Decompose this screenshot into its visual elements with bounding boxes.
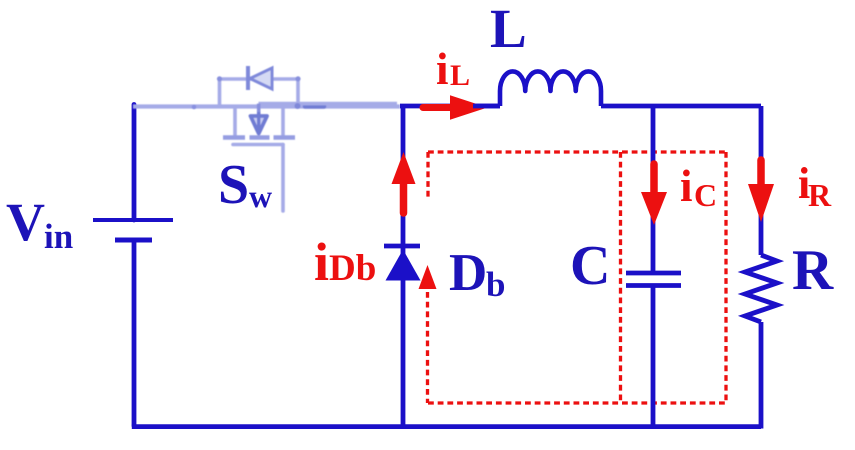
wire: capacitor branch upper xyxy=(651,106,656,273)
svg-text:L: L xyxy=(490,0,527,59)
svg-text:C: C xyxy=(694,177,717,213)
current arrow iDb xyxy=(400,184,408,213)
svg-text:D: D xyxy=(449,244,487,302)
svg-text:i: i xyxy=(314,232,329,292)
current arrow iR xyxy=(757,160,765,185)
svg-text:i: i xyxy=(680,161,693,211)
faded switch: channel bars xyxy=(223,135,245,140)
inductor L xyxy=(500,71,601,106)
svg-text:in: in xyxy=(44,217,73,256)
faded switch: gate lead xyxy=(281,145,285,212)
svg-text:S: S xyxy=(218,154,249,216)
wire: top wire from diode node to inductor xyxy=(400,104,500,109)
resistor R zigzag xyxy=(745,255,777,322)
dashed loop: arrowhead xyxy=(419,265,437,289)
wire: capacitor branch lower xyxy=(651,286,656,429)
battery Vin short plate xyxy=(115,238,152,243)
svg-text:V: V xyxy=(6,192,45,252)
faded switch: source lead second line xyxy=(259,102,398,106)
dashed loop: bottom edge xyxy=(428,401,726,404)
faded switch: bottom line xyxy=(233,143,283,147)
battery Vin long plate xyxy=(93,218,173,222)
diode Db triangle xyxy=(386,250,421,281)
faded switch: junction dot xyxy=(192,105,197,110)
dashed loop: top edge xyxy=(428,150,726,153)
faded switch: body diode loop xyxy=(220,79,299,108)
wire: top wire from inductor to right corner xyxy=(601,104,761,109)
wire: left vertical from top wire to battery xyxy=(132,105,137,221)
faded switch: body diode cathode bar xyxy=(246,66,250,90)
current arrow iC xyxy=(650,164,658,193)
wire: left vertical from battery to bottom rail xyxy=(132,240,137,427)
wire: diode branch vertical xyxy=(401,104,406,428)
svg-text:R: R xyxy=(792,239,834,302)
dashed loop: left edge lower xyxy=(426,292,429,403)
faded switch Sw: horizontal wire xyxy=(133,104,400,108)
capacitor C top plate xyxy=(626,271,681,276)
capacitor C bottom plate xyxy=(626,283,681,288)
faded switch: loop junction blob xyxy=(295,103,301,109)
svg-text:Db: Db xyxy=(329,248,376,289)
diode Db cathode bar xyxy=(384,244,420,249)
faded switch: loop corner dots xyxy=(217,76,222,81)
svg-text:L: L xyxy=(450,59,470,92)
wire: resistor branch upper xyxy=(759,106,764,255)
wire: segment over arrow tip xyxy=(473,104,500,109)
svg-text:R: R xyxy=(808,177,832,213)
svg-text:i: i xyxy=(436,44,449,94)
dashed loop: right edge xyxy=(724,152,727,403)
dashed loop: left edge upper xyxy=(426,152,429,200)
wire: bottom rail xyxy=(132,424,761,429)
svg-text:C: C xyxy=(570,235,610,297)
faded switch: darker drain segment xyxy=(305,104,324,109)
wire: resistor branch lower xyxy=(759,322,764,429)
faded switch: MOSFET right stub xyxy=(281,107,285,137)
faded switch: MOSFET middle arrow xyxy=(257,104,261,118)
dashed loop: inner vertical xyxy=(619,152,622,403)
current arrow iL xyxy=(423,104,452,111)
svg-text:w: w xyxy=(249,178,272,214)
faded switch: MOSFET left stub xyxy=(233,107,237,137)
svg-text:b: b xyxy=(486,265,505,304)
faded switch: body diode triangle xyxy=(250,68,272,89)
